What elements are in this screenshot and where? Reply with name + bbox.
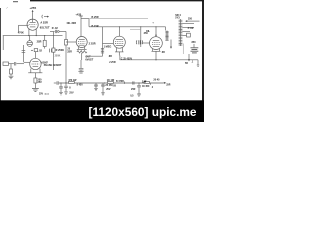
svg-text:5Y3: 5Y3 <box>175 16 180 19</box>
wire: down arrow to output <box>170 40 172 48</box>
svg-text:R .02: R .02 <box>52 27 59 30</box>
resistor R15 on bus <box>108 81 114 83</box>
wire: divider taps <box>182 24 194 36</box>
ground arrow (supply) <box>188 54 190 60</box>
label: rectifier text top right <box>175 14 181 17</box>
resistor R9 hatches on rail <box>101 48 104 53</box>
label: R5 value text <box>56 49 65 52</box>
node junction on return line <box>155 59 156 60</box>
svg-text:OIL 30R: OIL 30R <box>67 22 77 25</box>
resistor R11 vertical hatched chain right of rail corner <box>165 27 167 31</box>
label: text with arrow mid right <box>191 41 196 44</box>
svg-text:25V: 25V <box>39 94 44 96</box>
ground (input) <box>9 76 14 79</box>
label: 250 <box>144 32 149 35</box>
capacitor C1 (V1 cathode bypass, electrolytic) <box>29 36 31 41</box>
wire: long vertical plate rail to bus <box>65 32 67 84</box>
label: C11 value <box>77 84 84 87</box>
wire: V3 plate lead <box>79 16 83 37</box>
capacitor C3 on vertical branch to V2 grid <box>22 45 24 62</box>
wire: tie line y=56 <box>86 55 103 57</box>
label: R7 value <box>67 48 70 51</box>
svg-text:250: 250 <box>144 32 149 35</box>
svg-text:8R: 8R <box>162 52 165 54</box>
resistor R4 (V2 grid to ground) <box>10 64 12 69</box>
label: text right of V5 cathode <box>162 52 165 54</box>
node junction dots on bus <box>28 35 45 36</box>
label: under-bus text <box>113 85 117 88</box>
wire: V5 cathode network <box>153 49 160 52</box>
wire: bus right end arrow <box>162 82 165 84</box>
svg-text:25R: 25R <box>166 85 171 87</box>
label: V5 supply <box>146 30 151 33</box>
svg-text:25V: 25V <box>38 81 43 84</box>
wire: V1 plate supply lead with arrow <box>32 11 34 20</box>
wire: left drop from bus <box>2 36 4 50</box>
wire: B+ branch tie <box>81 19 89 27</box>
node junction dots on rail <box>119 26 157 27</box>
label: branch 1 <box>92 16 99 19</box>
capacitor C6 (V3 cathode bypass) <box>80 60 82 68</box>
wire: junction stub at x=124.5 <box>124 82 126 84</box>
svg-text:R 250K: R 250K <box>56 49 65 52</box>
svg-text:+255: +255 <box>29 6 36 10</box>
label: V1 bias value <box>40 21 48 25</box>
label: text on bus right of R15 <box>116 80 124 83</box>
wire: stub y=29.3 <box>130 28 141 30</box>
capacitor C13 + ground below bus at x=103 <box>101 83 105 95</box>
svg-text:2SR: 2SR <box>37 40 42 43</box>
svg-text:[1120x560] upic.me: [1120x560] upic.me <box>89 105 197 119</box>
svg-text:PHASE INVERT: PHASE INVERT <box>44 64 62 67</box>
bottom watermark bar <box>0 100 204 122</box>
capacitor C9 on bus <box>133 81 134 84</box>
label: V2 function text <box>44 64 62 67</box>
capacitor C11 + ground below bus at x=66 (rail continues) <box>64 83 68 94</box>
resistor R6 (V2 cathode) <box>34 78 37 83</box>
label: tap text <box>188 27 194 30</box>
resistor R1 (V1 grid leak) <box>18 25 20 32</box>
svg-text:6V6GT: 6V6GT <box>85 58 93 61</box>
wire: input arrow to V1 <box>41 15 44 18</box>
label: C10 value <box>69 86 71 89</box>
wire: V5 grid line <box>142 42 150 44</box>
wire: vertical rail left of V5 <box>140 27 142 47</box>
svg-text:2 2SR: 2 2SR <box>89 43 96 46</box>
capacitor C7 filter stack <box>193 44 195 47</box>
wire: return line right end hook <box>197 60 199 65</box>
label: branch 2 <box>92 25 99 28</box>
wire: V2 cathode network <box>31 69 40 73</box>
svg-text:1 MEG: 1 MEG <box>104 46 112 49</box>
capacitor C5 coupling to stage 3 <box>50 31 55 33</box>
wire: V1 cathode leads down <box>28 29 30 36</box>
wire: arrow top right <box>188 17 193 20</box>
label: bottom text <box>130 95 134 98</box>
label: C1 value <box>37 40 42 43</box>
svg-text:470K: 470K <box>18 32 24 35</box>
svg-text:2 25R: 2 25R <box>109 61 116 64</box>
wire: V2 grid line <box>24 61 30 63</box>
wire: chain bottom stub <box>182 44 184 55</box>
label: small mark <box>152 87 154 89</box>
svg-text:5R: 5R <box>185 63 188 65</box>
svg-text:40 450: 40 450 <box>142 85 150 88</box>
wire: long cathode return line to right <box>120 56 198 60</box>
ground (V2 cathode) <box>32 89 39 92</box>
label: text left of C14 <box>131 88 136 91</box>
resistor R8 (V3 cathode zigzag) <box>77 51 87 53</box>
wire: right frame border line <box>202 0 204 101</box>
node B+ label +255 <box>29 6 36 10</box>
label: text above bus end <box>153 79 160 82</box>
label: C5 value <box>52 27 59 30</box>
label: 25V <box>69 92 74 95</box>
label: tube V1 type 6SL7GT <box>40 25 50 29</box>
label: faint text row <box>55 55 61 58</box>
svg-text:20-45: 20-45 <box>153 79 160 82</box>
wire: B+ branch 1 <box>89 18 148 20</box>
svg-text:B 25R: B 25R <box>92 16 99 19</box>
wire: B+ branch 2 rail <box>89 26 166 28</box>
resistor R13 small box on tap <box>187 33 191 37</box>
svg-text:C XX: C XX <box>188 27 194 30</box>
svg-text:350: 350 <box>191 41 196 44</box>
tube V3 (driver) <box>76 37 87 48</box>
svg-text:8R: 8R <box>109 55 112 58</box>
resistor R3 input series box <box>3 62 9 65</box>
svg-text:25R: 25R <box>131 88 136 91</box>
svg-text:25V: 25V <box>106 88 111 91</box>
resistor R16 on bus <box>144 81 149 83</box>
wire: V4 grid line <box>103 43 114 45</box>
svg-text:1K 1W: 1K 1W <box>107 79 115 82</box>
resistor R14 on bus <box>69 81 75 83</box>
label: marks under V4 <box>109 55 112 58</box>
svg-text:6SL7GT: 6SL7GT <box>40 25 50 29</box>
wire: V5 plate lead with arrow <box>155 27 157 37</box>
label: C14 value <box>142 82 147 84</box>
capacitor C14 + ground below bus at x=139 <box>137 83 141 96</box>
wire: cathode bus of V1 stage <box>3 35 63 37</box>
node supply +420 for V3 <box>75 12 81 16</box>
tube V1 (6SL7 triode, input stage top-left) <box>27 19 38 30</box>
tube V4 (output 1) <box>113 36 125 48</box>
resistor R2 (V1 cathode) <box>44 36 46 41</box>
svg-text:A 2SR: A 2SR <box>40 21 48 25</box>
label: plate supply text <box>67 22 77 25</box>
wire: small dash on top edge <box>13 1 18 3</box>
wire: top frame border line <box>30 0 204 2</box>
node junction dots on bus <box>61 82 140 83</box>
wire: V3 grid line <box>66 41 76 43</box>
svg-text:2SR: 2SR <box>67 51 72 54</box>
label: C13 value <box>105 84 113 87</box>
svg-text:8 450: 8 450 <box>77 84 84 87</box>
wire: V1 grid line from left <box>19 24 29 26</box>
capacitor C15 (left of V5 grid) <box>136 40 142 44</box>
label: C13 volts <box>106 88 111 91</box>
svg-text:45 R: 45 R <box>44 93 49 96</box>
label: R6 values <box>38 78 43 81</box>
resistor R7 (on x=65.5 rail) <box>65 40 68 46</box>
wire: tiny tick top-left corner <box>6 7 8 8</box>
label: tiny note <box>185 63 188 65</box>
svg-text:250: 250 <box>188 17 193 20</box>
capacitor C12 + ground below bus at x=96 <box>94 83 98 91</box>
tube V2 (6SN7 triode, lower-left) <box>30 58 41 69</box>
wire: bottom supply bus <box>59 82 163 84</box>
label: small mark above <box>152 21 154 24</box>
svg-text:25V: 25V <box>69 92 74 95</box>
label: tube V2 type <box>41 60 48 64</box>
svg-text:250K: 250K <box>55 55 61 58</box>
label: R9 value 1MEG <box>104 46 112 49</box>
capacitor C2 coupling row above V2 <box>31 49 33 51</box>
label: under-line text left <box>109 61 116 64</box>
label: text right of arrow <box>166 85 171 87</box>
svg-text:.02: .02 <box>38 49 42 52</box>
tube V5 (output 2) <box>150 37 163 50</box>
wire: V4 cathode network <box>117 48 123 52</box>
wire: V3 cathode network <box>79 47 85 50</box>
wire: grid rail x=102.5 <box>102 27 104 56</box>
label: text on return line <box>121 57 133 60</box>
svg-text:25 450: 25 450 <box>105 84 113 87</box>
resistor R5 on vertical x=53.5 <box>53 32 55 48</box>
capacitor C8 at bus left end <box>54 82 57 84</box>
label: left of V4 <box>89 43 96 46</box>
svg-text:C 25 450V: C 25 450V <box>121 57 133 60</box>
wire: stub down at x=150.3 <box>149 83 151 85</box>
label: V3 stage text <box>85 56 91 59</box>
svg-text:B 15R: B 15R <box>92 25 99 28</box>
svg-text:470 1W: 470 1W <box>68 79 77 82</box>
resistor R12 divider chain vertical <box>180 19 182 46</box>
ground (V3) <box>78 72 83 73</box>
label: note below <box>39 94 44 96</box>
capacitor C4 input coupling <box>15 62 16 66</box>
label: faint note <box>44 93 49 96</box>
wire: V4 plate lead from rail <box>118 27 120 37</box>
wire: left frame border line <box>0 8 1 101</box>
svg-text:B 470R: B 470R <box>116 80 124 83</box>
capacitor C10 + ground below bus at x=61 <box>59 83 63 95</box>
